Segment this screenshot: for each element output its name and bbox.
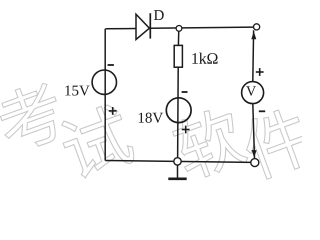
resistor R 1k: [174, 45, 182, 67]
arrow down at node N4: [252, 150, 257, 158]
ground bar: [168, 177, 186, 180]
wire right branch upper: [252, 30, 255, 82]
wire right branch lower: [253, 104, 255, 159]
plus sign of 18V: [182, 126, 190, 134]
wire top-left segment: [106, 28, 137, 30]
voltmeter V letter: [246, 86, 256, 96]
arrow up at node N2: [251, 31, 256, 39]
voltmeter V circle: [242, 82, 264, 104]
label D: [154, 10, 164, 20]
node N3 bottom-middle circle: [174, 158, 181, 165]
diode D triangle: [136, 14, 149, 39]
diode D cathode bar: [149, 13, 151, 38]
source V1 15V circle: [92, 70, 116, 94]
node N4 bottom-right circle: [251, 159, 259, 167]
watermark char 软: [169, 103, 249, 183]
wire middle branch upper: [177, 29, 179, 46]
source V2 18V circle: [166, 98, 191, 123]
label 18V: [139, 113, 144, 123]
label 1kOhm: [192, 53, 198, 64]
plus sign of voltmeter: [256, 68, 264, 76]
plus sign of 15V: [109, 107, 117, 115]
node N2 top-right circle: [254, 24, 260, 30]
label 15V: [65, 85, 70, 95]
watermark char 考: [0, 78, 69, 155]
minus sign of 15V: [108, 64, 114, 66]
ground stem: [177, 165, 179, 178]
minus sign of voltmeter: [259, 110, 265, 112]
wire bottom: [105, 161, 251, 163]
wire top-right segment: [150, 27, 253, 28]
wire middle branch lower: [177, 67, 180, 161]
node N1 junction circle: [176, 26, 182, 32]
wire left branch: [104, 29, 106, 161]
minus sign of 18V: [182, 91, 188, 93]
watermark char 件: [237, 103, 317, 182]
watermark char 试: [56, 101, 138, 182]
